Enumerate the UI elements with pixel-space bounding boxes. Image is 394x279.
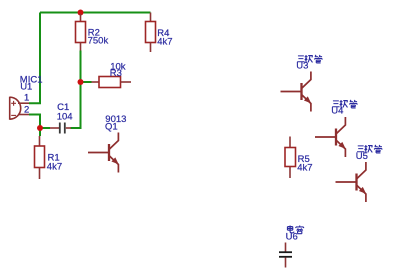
resistor R3 (92, 77, 132, 88)
wire junction down to R1 (39, 128, 41, 136)
svg-text:U3: U3 (296, 60, 308, 71)
label 三极管 U4 (332, 100, 357, 108)
svg-text:4k7: 4k7 (297, 163, 312, 174)
svg-text:R3: R3 (110, 68, 122, 79)
svg-text:4k7: 4k7 (47, 161, 62, 172)
transistor Q1 9013 (88, 133, 119, 173)
svg-text:U1: U1 (20, 82, 32, 93)
junction node A (37, 125, 43, 131)
svg-text:Q1: Q1 (105, 121, 118, 132)
resistor R5 (285, 137, 296, 179)
wire top rail (40, 12, 151, 14)
resistor R2 (76, 14, 86, 51)
microphone MIC1 U1 (10, 97, 29, 120)
svg-text:U5: U5 (356, 151, 368, 162)
wire MIC pin 2 to junction (29, 115, 40, 129)
svg-text:750k: 750k (88, 36, 109, 47)
wire node B to R3 (81, 81, 92, 83)
capacitor U6 (279, 243, 292, 268)
svg-text:4k7: 4k7 (157, 37, 172, 48)
svg-text:1: 1 (24, 93, 29, 104)
resistor R4 (146, 13, 156, 53)
svg-text:U6: U6 (286, 231, 298, 242)
wire junction to C1 left (40, 127, 50, 129)
label 三极管 U5 (357, 145, 382, 153)
svg-text:U4: U4 (331, 105, 343, 116)
wire C1 right up to node B (71, 51, 81, 129)
junction node B (78, 79, 84, 85)
transistor U4 (315, 117, 346, 157)
svg-text:2: 2 (24, 105, 29, 116)
label 电容 U6 (287, 225, 303, 233)
junction dot top rail (78, 10, 84, 16)
label 三极管 U3 (297, 55, 322, 63)
svg-text:104: 104 (57, 111, 73, 122)
wire left vertical to MIC pin 1 (29, 13, 40, 104)
resistor R1 (35, 136, 45, 179)
transistor U5 (336, 162, 367, 202)
capacitor C1 (50, 123, 71, 134)
transistor U3 (281, 72, 312, 112)
